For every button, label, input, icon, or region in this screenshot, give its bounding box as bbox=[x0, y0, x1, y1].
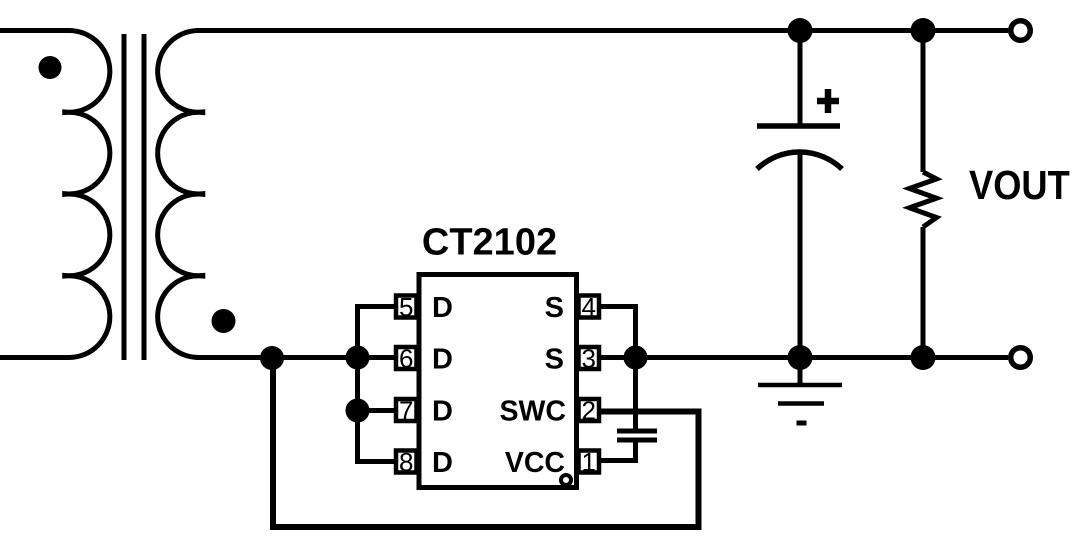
wire right pin rail bbox=[599, 307, 636, 429]
svg-text:6: 6 bbox=[399, 344, 413, 374]
svg-text:4: 4 bbox=[581, 292, 595, 322]
node junction top at R1 bbox=[911, 18, 936, 43]
svg-text:D: D bbox=[432, 396, 453, 428]
transformer T1 secondary phase dot bbox=[212, 309, 236, 333]
node junction pin3 bbox=[624, 346, 648, 370]
svg-text:D: D bbox=[432, 344, 453, 376]
wire bottom rail right bbox=[599, 355, 1008, 360]
transformer T1 primary winding bbox=[0, 31, 110, 358]
svg-text:3: 3 bbox=[581, 344, 595, 374]
transformer T1 primary phase dot bbox=[39, 56, 62, 79]
wire bottom rail left bbox=[196, 355, 396, 360]
svg-text:5: 5 bbox=[399, 292, 413, 322]
wire resistor R1 top branch bbox=[921, 31, 926, 173]
node junction pin7 rail bbox=[346, 399, 370, 423]
svg-text:S: S bbox=[545, 292, 564, 324]
capacitor C1 plus sign bbox=[817, 89, 839, 113]
wire C2 to pin 1 bbox=[599, 443, 636, 461]
svg-text:8: 8 bbox=[399, 447, 413, 477]
node junction bottom at R1 bbox=[911, 345, 936, 370]
svg-text:VOUT: VOUT bbox=[969, 163, 1070, 209]
svg-text:1: 1 bbox=[581, 447, 595, 477]
pin 1 box bbox=[579, 451, 600, 473]
ground bbox=[758, 358, 842, 424]
wire capacitor C1 top branch bbox=[798, 31, 803, 127]
transformer T1 secondary winding bbox=[158, 31, 203, 358]
pin 6 box bbox=[396, 347, 417, 369]
op-amp U1 CT2102 body bbox=[419, 275, 577, 488]
svg-text:CT2102: CT2102 bbox=[422, 222, 557, 264]
pin 3 box bbox=[579, 347, 600, 369]
pin 7 box bbox=[396, 399, 417, 421]
capacitor C2 top plate bbox=[617, 429, 657, 434]
pin 4 box bbox=[579, 296, 600, 318]
svg-text:2: 2 bbox=[581, 396, 595, 426]
svg-text:S: S bbox=[545, 344, 564, 376]
wire resistor R1 bottom branch bbox=[921, 227, 926, 358]
pin 2 box bbox=[579, 399, 600, 421]
capacitor C1 curved negative plate bbox=[757, 152, 842, 169]
svg-text:VCC: VCC bbox=[505, 447, 565, 479]
resistor R1 zigzag bbox=[910, 172, 937, 227]
wire top rail bbox=[196, 28, 1008, 33]
wire capacitor C1 bottom branch bbox=[798, 153, 803, 358]
svg-text:D: D bbox=[432, 292, 453, 324]
node junction bottom loop bbox=[260, 346, 284, 370]
wire left pin rail bbox=[358, 307, 397, 462]
pin 1 indicator circle bbox=[561, 475, 571, 485]
pin 5 box bbox=[396, 296, 417, 318]
node junction pin6 rail bbox=[346, 346, 370, 370]
terminal VOUT+ bbox=[1011, 21, 1031, 41]
node junction top at C1 bbox=[788, 18, 813, 43]
wire SWC feedback loop bbox=[273, 358, 699, 528]
capacitor C2 bottom plate bbox=[617, 438, 657, 443]
svg-text:D: D bbox=[432, 447, 453, 479]
terminal VOUT- bbox=[1011, 348, 1031, 368]
svg-text:SWC: SWC bbox=[500, 396, 567, 428]
capacitor C1 positive plate bbox=[757, 123, 840, 129]
wire pin7 stub bbox=[358, 408, 397, 413]
pin 8 box bbox=[396, 451, 417, 473]
transformer T1 core bbox=[124, 34, 144, 360]
node junction bottom at C1 bbox=[788, 345, 813, 370]
svg-text:7: 7 bbox=[399, 396, 413, 426]
